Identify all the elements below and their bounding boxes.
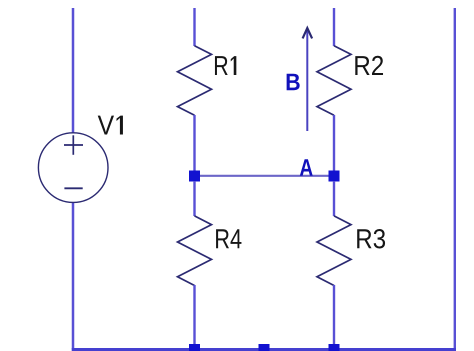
label B bbox=[287, 74, 300, 91]
wire: bottom rail bbox=[72, 348, 456, 351]
wire: R1 top lead bbox=[193, 8, 195, 46]
current arrow B (shaft) bbox=[306, 30, 308, 131]
junction: bottom rail right square bbox=[329, 344, 340, 351]
junction: node A right square bbox=[329, 171, 340, 182]
wire: left rail top (V1 positive lead up) bbox=[72, 8, 75, 133]
label R2 bbox=[355, 56, 383, 75]
resistor R3 bbox=[317, 216, 351, 286]
resistor R4 bbox=[178, 216, 212, 286]
label R1 bbox=[215, 56, 236, 75]
wire: R1 bottom lead to node A bbox=[193, 115, 195, 176]
resistor R1 bbox=[178, 46, 212, 116]
current arrow B (head) bbox=[303, 28, 313, 38]
wire: right rail bbox=[454, 8, 456, 349]
junction: node A left square bbox=[189, 171, 200, 182]
wire: R4 bottom lead to bottom rail bbox=[193, 285, 195, 349]
junction: bottom rail left square bbox=[189, 344, 200, 351]
voltage source V1 bbox=[38, 133, 108, 203]
wire: R2 top lead bbox=[333, 8, 335, 46]
label A bbox=[300, 159, 313, 176]
wire: left rail bottom (V1 negative lead down to bottom rail) bbox=[72, 203, 75, 350]
resistor R2 bbox=[317, 46, 351, 116]
label V1 bbox=[98, 116, 123, 135]
label R3 bbox=[357, 229, 385, 248]
junction: bottom rail middle square bbox=[259, 344, 270, 351]
wire: R3 top lead from node A bbox=[333, 181, 335, 216]
wire: R4 top lead from node A bbox=[193, 181, 195, 216]
label R4 bbox=[216, 229, 241, 248]
wire: R3 bottom lead to bottom rail bbox=[333, 285, 335, 349]
wire: node A horizontal bbox=[195, 175, 335, 177]
wire: R2 bottom lead to node A bbox=[333, 115, 335, 176]
